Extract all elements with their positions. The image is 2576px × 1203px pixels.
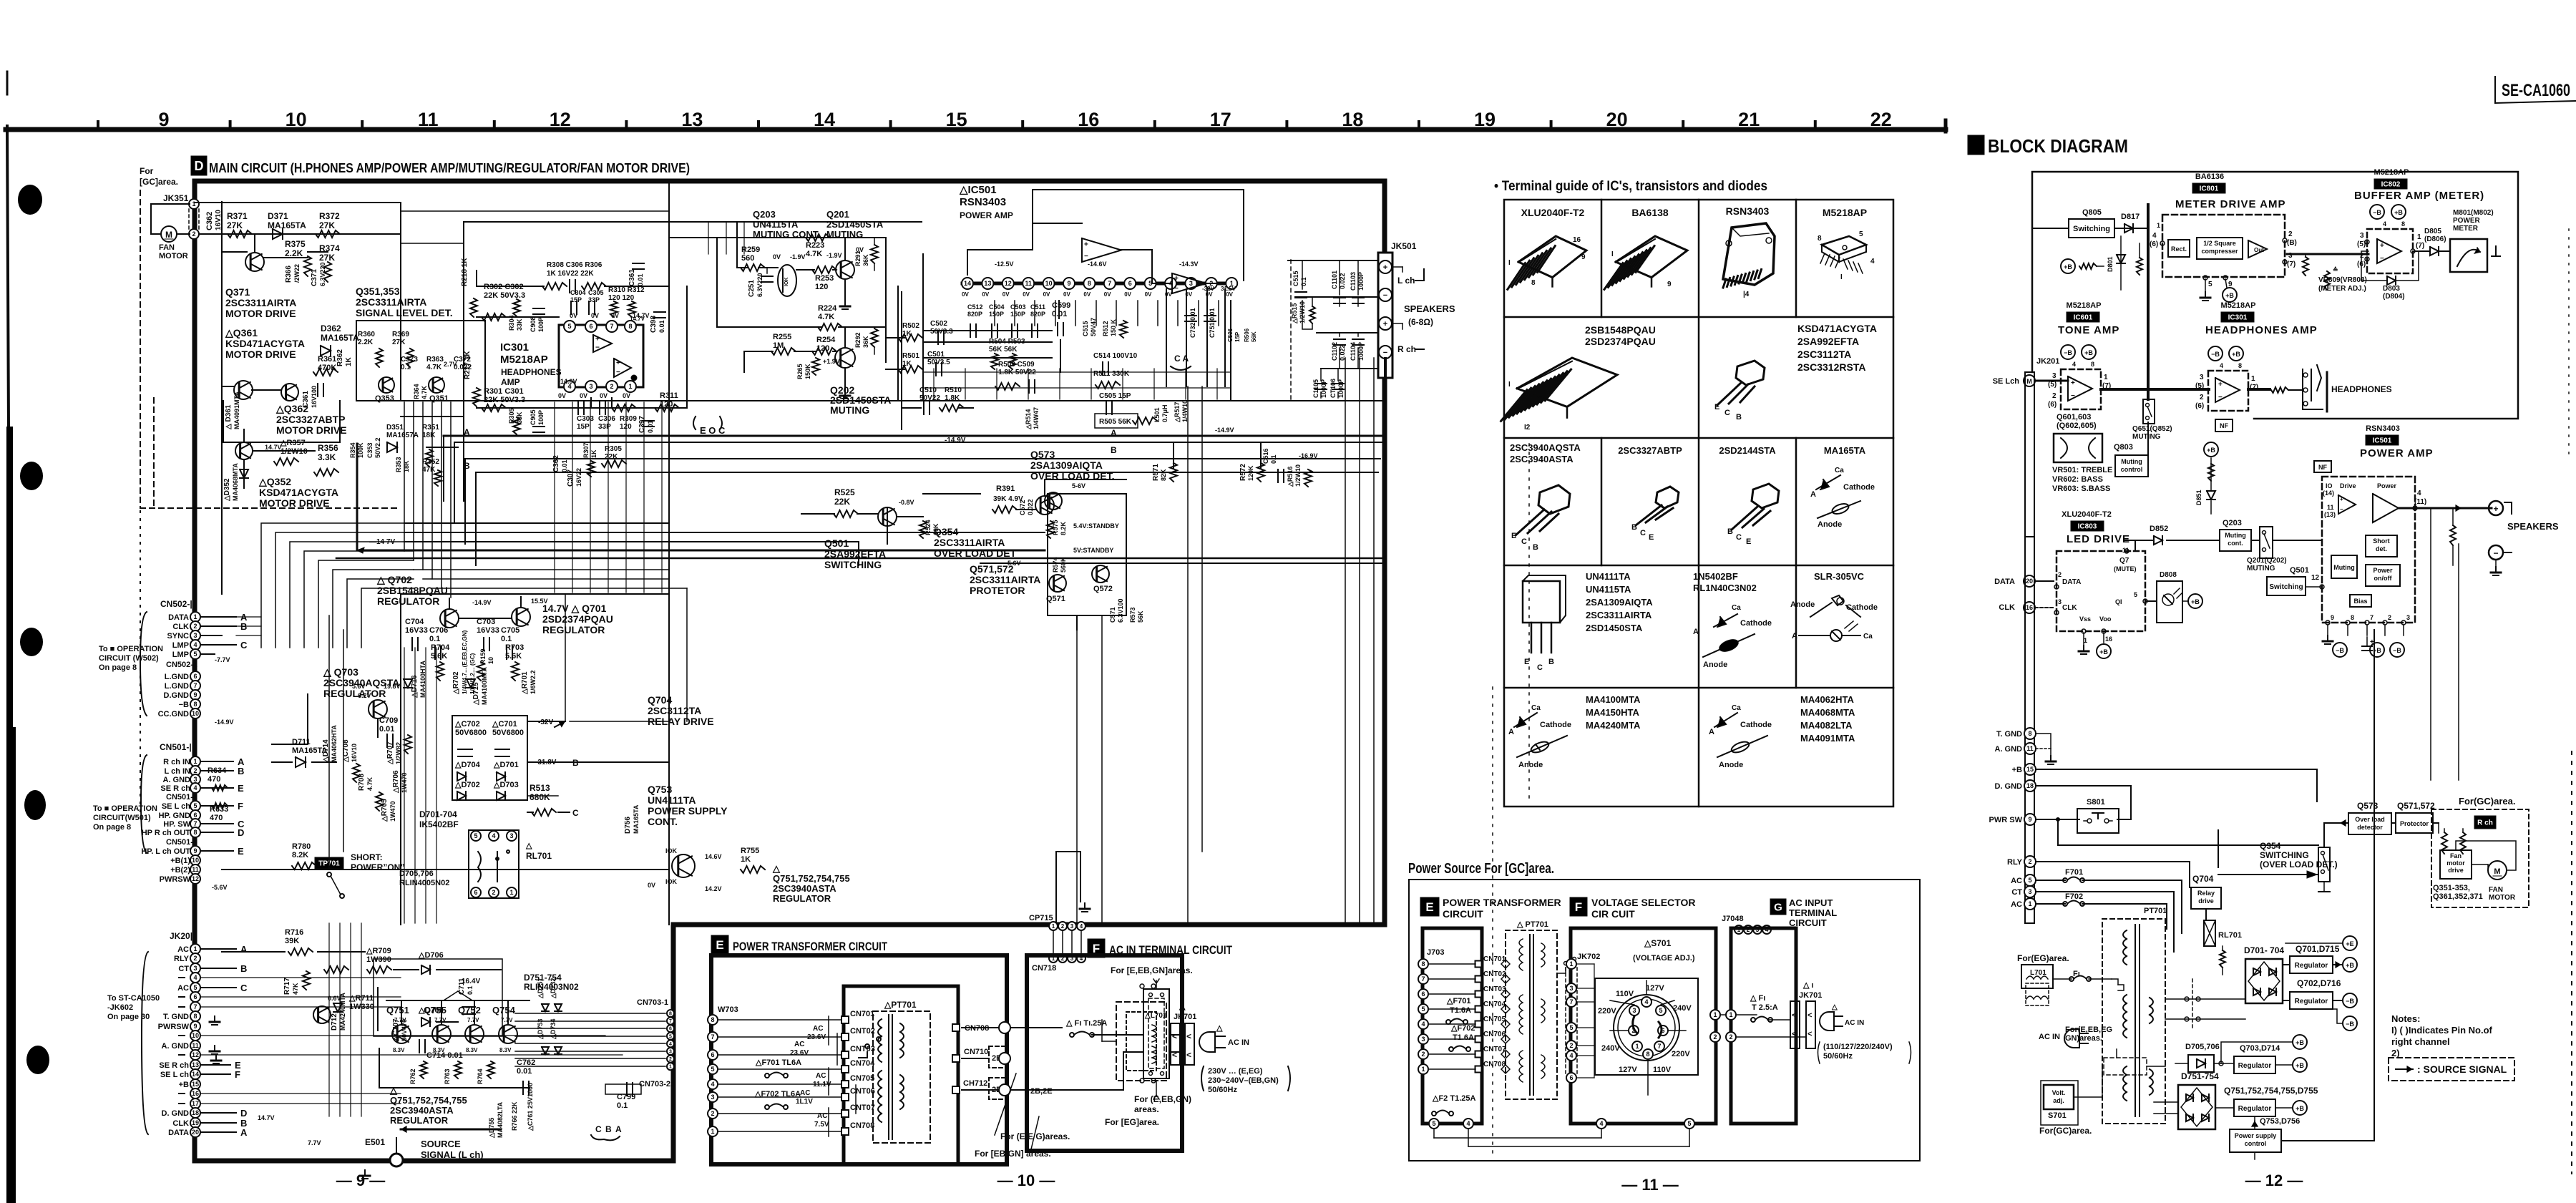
svg-text:Q755: Q755	[424, 1005, 447, 1016]
svg-text:SIGNAL LEVEL DET.: SIGNAL LEVEL DET.	[356, 307, 453, 318]
svg-text:56K: 56K	[1137, 610, 1144, 623]
svg-text:IO: IO	[2326, 482, 2333, 490]
svg-text:CP715: CP715	[1029, 914, 1053, 922]
wire rails left of table	[1384, 401, 1385, 925]
signal level det cluster	[356, 321, 485, 401]
svg-text:I: I	[1840, 273, 1843, 281]
svg-text:+B(2): +B(2)	[170, 866, 190, 875]
svg-text:-7.7V: -7.7V	[215, 656, 230, 663]
svg-text:REGULATOR: REGULATOR	[773, 893, 831, 904]
svg-text:DATA: DATA	[168, 613, 189, 622]
svg-text:3: 3	[193, 632, 197, 639]
svg-text:16: 16	[1573, 236, 1581, 244]
svg-text:8: 8	[1531, 279, 1536, 287]
wire rail2	[717, 326, 821, 328]
svg-text:CIRCUIT: CIRCUIT	[1443, 908, 1483, 920]
svg-text:0.01: 0.01	[379, 725, 394, 734]
svg-text:UN4115TA: UN4115TA	[1586, 584, 1631, 595]
block diagram title	[1968, 135, 1984, 155]
svg-text:OVER LOAD DET: OVER LOAD DET	[934, 547, 1017, 559]
nested wire loops to connectors	[404, 522, 669, 524]
svg-text:230~240V–(EB,GN): 230~240V–(EB,GN)	[1208, 1076, 1279, 1085]
svg-text:7.7V: 7.7V	[308, 1139, 321, 1146]
svg-text:UN4115TA: UN4115TA	[753, 219, 799, 230]
svg-text:△R516: △R516	[1287, 467, 1294, 487]
block diagram outer box	[2032, 172, 2518, 419]
svg-text:I: I	[1508, 381, 1511, 389]
svg-text:15P: 15P	[1234, 331, 1241, 342]
opamp IC501b	[1172, 273, 1206, 293]
svg-text:Q501: Q501	[824, 537, 849, 549]
svg-text:(7): (7)	[2416, 242, 2424, 250]
svg-text:On page 30: On page 30	[107, 1013, 150, 1021]
svg-text:10: 10	[1045, 280, 1053, 287]
svg-text:To ■ OPERATION: To ■ OPERATION	[93, 804, 157, 813]
svg-text:7: 7	[193, 682, 197, 689]
wire	[839, 326, 886, 328]
svg-text:2: 2	[193, 767, 197, 774]
svg-text:T. GND: T. GND	[163, 1013, 189, 1021]
wire mesh Q2xx	[716, 238, 718, 327]
svg-text:0V: 0V	[1063, 291, 1070, 298]
svg-text:3: 3	[2058, 598, 2062, 605]
svg-text:C503: C503	[1010, 303, 1026, 311]
svg-text:Cathode: Cathode	[1846, 603, 1878, 612]
+B circle r1	[2343, 958, 2357, 972]
svg-text:CNT07: CNT07	[850, 1104, 875, 1112]
svg-text:6.3V220: 6.3V220	[319, 262, 326, 286]
svg-text:C516: C516	[1262, 448, 1269, 464]
svg-text:R763: R763	[444, 1068, 451, 1084]
svg-text:2: 2	[1061, 923, 1065, 930]
svg-text:For [EG]area.: For [EG]area.	[1105, 1117, 1159, 1127]
svg-text:+1.9V: +1.9V	[823, 358, 840, 365]
svg-text:M: M	[165, 230, 172, 240]
svg-text:(6-8Ω): (6-8Ω)	[1408, 317, 1433, 327]
svg-text:CH712: CH712	[963, 1079, 987, 1088]
svg-text:19.8V: 19.8V	[384, 683, 401, 690]
regulator box 2	[2290, 992, 2333, 1009]
svg-text:0.1: 0.1	[501, 635, 512, 643]
svg-text:B: B	[1631, 523, 1637, 532]
svg-text:JK701: JK701	[1799, 991, 1822, 1000]
wire relay	[2189, 923, 2190, 937]
switch q354	[2318, 847, 2330, 882]
table row lines	[1504, 316, 1893, 318]
svg-text:det.: det.	[2376, 545, 2387, 552]
svg-text:100P: 100P	[537, 410, 545, 425]
svg-text:R364: R364	[413, 384, 420, 399]
svg-text:3: 3	[1189, 280, 1193, 287]
svg-text:SE L ch: SE L ch	[160, 1071, 189, 1079]
svg-text:2: 2	[193, 955, 197, 962]
svg-text:△: △	[772, 863, 781, 874]
svg-text:CT: CT	[2011, 888, 2022, 897]
svg-text:14.7V △ Q701: 14.7V △ Q701	[542, 603, 607, 614]
long verticals block	[2430, 508, 2431, 780]
svg-text:MOTOR DRIVE: MOTOR DRIVE	[225, 308, 296, 319]
svg-text:0V: 0V	[982, 291, 989, 298]
svg-text:C709: C709	[379, 716, 398, 725]
svg-text:8: 8	[1088, 280, 1091, 287]
svg-text:220V: 220V	[1598, 1007, 1616, 1016]
svg-text:-0.8V: -0.8V	[899, 499, 914, 506]
svg-text:△D701: △D701	[493, 761, 519, 769]
svg-text:△R706: △R706	[392, 770, 400, 794]
svg-text:1/6W2.2… (GC): 1/6W2.2… (GC)	[469, 653, 476, 694]
short det box	[2366, 535, 2397, 557]
svg-text:PT701: PT701	[2144, 907, 2167, 915]
wire	[527, 721, 565, 722]
svg-text:10: 10	[286, 109, 307, 130]
svg-text:<: <	[1172, 1050, 1177, 1060]
svg-text:+: +	[1084, 241, 1088, 249]
svg-text:△R701: △R701	[521, 671, 529, 695]
svg-text:+B: +B	[2296, 1105, 2304, 1112]
svg-text:2SC3112TA: 2SC3112TA	[648, 705, 701, 716]
svg-text:XLU2040F-T2: XLU2040F-T2	[2062, 510, 2112, 519]
horiz segs upper mid	[401, 210, 669, 212]
svg-text:MOTOR DRIVE: MOTOR DRIVE	[259, 497, 330, 509]
transistor Q371	[245, 253, 264, 271]
svg-text:SE R ch: SE R ch	[160, 784, 190, 793]
bias box	[2350, 595, 2371, 607]
corner wires CN side	[261, 523, 414, 648]
svg-text:(6): (6)	[2195, 402, 2204, 410]
svg-text:2SD2144STA: 2SD2144STA	[1719, 445, 1776, 456]
svg-text:−: −	[2380, 255, 2384, 263]
wire bridge2	[2215, 1107, 2234, 1109]
wire	[243, 429, 245, 442]
svg-text:R573: R573	[1129, 607, 1136, 623]
svg-text:5: 5	[1687, 1120, 1691, 1127]
svg-text:9: 9	[1581, 253, 1586, 261]
L701 structure	[1143, 989, 1169, 1078]
transistor Q354t	[1035, 496, 1054, 515]
svg-text:C306: C306	[598, 415, 615, 423]
svg-text:IOK: IOK	[665, 847, 678, 854]
switching box q501	[2267, 577, 2306, 595]
svg-text:≙: ≙	[2333, 266, 2338, 273]
wire f1	[2053, 978, 2072, 980]
long bus wires 2	[414, 569, 669, 570]
svg-text:3: 3	[193, 776, 197, 783]
opamp IC301b	[614, 359, 631, 377]
muting transistor Q203	[778, 265, 796, 296]
protector box block	[2396, 813, 2433, 833]
F box bold	[1027, 955, 1182, 1151]
svg-text:DATA: DATA	[168, 1129, 189, 1137]
svg-text:For [E,EB,GN]areas.: For [E,EB,GN]areas.	[1111, 965, 1193, 975]
svg-text:R360: R360	[358, 331, 375, 339]
opamp IC501a	[1082, 238, 1121, 262]
svg-text:AC: AC	[177, 945, 189, 954]
svg-text:D817: D817	[2121, 213, 2140, 221]
svg-text:0.1: 0.1	[1300, 277, 1307, 286]
svg-text:C504: C504	[989, 303, 1005, 311]
svg-text:−B: −B	[2346, 1021, 2354, 1028]
svg-text:R766 22K: R766 22K	[511, 1101, 518, 1131]
svg-text:IOK: IOK	[784, 278, 789, 286]
svg-text:5.6K: 5.6K	[431, 652, 447, 661]
svg-text:R762: R762	[409, 1068, 416, 1084]
svg-text:D712: D712	[331, 1013, 338, 1031]
svg-text:-1.9V: -1.9V	[790, 253, 806, 260]
svg-text:C: C	[1521, 537, 1527, 546]
table column lines row3	[1601, 438, 1603, 565]
svg-text:— 10 —: — 10 —	[997, 1172, 1055, 1189]
svg-text:(D804): (D804)	[2383, 293, 2405, 301]
pa bottom pins	[2326, 620, 2330, 625]
vertical bundle to bottom	[404, 648, 405, 923]
svg-text:SLR-305VC: SLR-305VC	[1814, 571, 1865, 582]
svg-text:E: E	[1524, 658, 1529, 666]
svg-text:R309: R309	[620, 415, 637, 423]
E box bold	[711, 955, 1007, 1164]
svg-text:Q354: Q354	[2260, 841, 2281, 851]
svg-text:Q805: Q805	[2082, 208, 2102, 217]
svg-text:IK5402BF: IK5402BF	[419, 819, 459, 829]
svg-text:F: F	[238, 801, 243, 812]
svg-text:E: E	[1511, 532, 1516, 540]
svg-text:14.7V: 14.7V	[630, 316, 645, 322]
svg-text:C511: C511	[1030, 303, 1045, 311]
svg-text:Q701,D715: Q701,D715	[2296, 944, 2340, 954]
svg-text:BA6136: BA6136	[2195, 172, 2224, 181]
svg-text:R351: R351	[422, 424, 439, 432]
svg-text:1: 1	[193, 758, 197, 765]
svg-text:1: 1	[711, 1128, 714, 1135]
svg-text:R255: R255	[773, 333, 791, 341]
svg-text:560K: 560K	[1060, 557, 1067, 573]
svg-text:C704: C704	[405, 618, 424, 626]
svg-text:Q571,572: Q571,572	[2397, 801, 2435, 811]
svg-text:2SA1309AIQTA: 2SA1309AIQTA	[1586, 597, 1653, 608]
svg-text:0V: 0V	[962, 291, 969, 298]
transistor Q712	[313, 1006, 331, 1023]
svg-text:C905: C905	[530, 409, 537, 425]
wire d705	[2175, 1063, 2188, 1064]
svg-text:+E: +E	[2346, 940, 2353, 948]
svg-text:8: 8	[669, 1012, 672, 1017]
svg-text:7: 7	[711, 1033, 714, 1041]
svg-text:F: F	[1575, 900, 1582, 914]
svg-text:М: М	[2026, 378, 2032, 385]
svg-text:−B: −B	[2373, 209, 2381, 216]
ruler ticks	[97, 122, 99, 130]
2E dashed boxes	[989, 1046, 1008, 1068]
svg-text:△R514: △R514	[1025, 409, 1032, 430]
svg-text:8: 8	[2238, 362, 2242, 369]
section F2 header	[1570, 897, 1587, 916]
left margin line	[6, 72, 9, 94]
svg-text:△R707: △R707	[386, 741, 394, 765]
svg-text:1: 1	[1569, 960, 1573, 968]
wire inner box signal	[464, 222, 922, 501]
+E circle	[2343, 936, 2357, 950]
svg-text:23.6V: 23.6V	[807, 1033, 826, 1041]
pins FG	[1710, 1010, 1720, 1020]
transistor Q750	[392, 1025, 411, 1043]
wire AC row2	[1010, 1089, 1123, 1091]
wires block vertical buses	[2316, 787, 2318, 802]
svg-text:1: 1	[628, 383, 632, 390]
svg-text:0.1: 0.1	[617, 1101, 628, 1110]
svg-text:110V: 110V	[1653, 1066, 1672, 1074]
svg-text:-32V: -32V	[1202, 286, 1215, 292]
svg-text:L.GND: L.GND	[165, 682, 189, 691]
svg-text:C362: C362	[205, 212, 214, 230]
transistor Q752	[465, 1025, 484, 1043]
svg-text:C: C	[595, 1124, 602, 1134]
wire top rail muting	[669, 237, 886, 238]
svg-text:12: 12	[1005, 280, 1012, 287]
svg-text:50V2.2: 50V2.2	[374, 437, 381, 458]
opamp tone	[2068, 376, 2092, 401]
svg-text:−: −	[1383, 291, 1387, 300]
transistor Q572	[1092, 565, 1109, 583]
wire AC row1	[1010, 1028, 1072, 1035]
svg-text:12: 12	[2311, 574, 2320, 582]
svg-text:M5218AP: M5218AP	[2374, 168, 2409, 177]
diode D803	[2387, 276, 2396, 285]
wire pt to bridge	[2165, 998, 2245, 1000]
svg-text:5: 5	[193, 802, 197, 809]
svg-text:10: 10	[192, 1032, 199, 1039]
wire vertical 648	[463, 401, 464, 501]
svg-text:RLY: RLY	[2007, 858, 2023, 867]
svg-text:(14): (14)	[2323, 490, 2334, 497]
svg-text:6: 6	[193, 673, 197, 680]
registration dot 4	[24, 790, 46, 820]
svg-text:5: 5	[711, 1066, 714, 1073]
svg-text:CN502-2: CN502-2	[166, 661, 197, 669]
svg-text:0.022: 0.022	[1027, 499, 1034, 515]
svg-text:MA4091MTA: MA4091MTA	[233, 391, 240, 429]
box around motor drive	[223, 401, 340, 442]
svg-text:B: B	[1736, 413, 1742, 422]
svg-text:Regulator: Regulator	[2238, 1062, 2272, 1070]
transistor Q703	[369, 700, 387, 719]
svg-text:M5218AP: M5218AP	[2221, 301, 2256, 310]
svg-text:2.7V: 2.7V	[444, 361, 457, 368]
svg-text:4.7K: 4.7K	[806, 250, 822, 258]
svg-text:-1.9V: -1.9V	[826, 252, 842, 259]
svg-text:△C701: △C701	[492, 720, 517, 729]
svg-text:240V: 240V	[1673, 1004, 1692, 1013]
svg-text:AC: AC	[794, 1041, 804, 1048]
svg-text:D801: D801	[2107, 256, 2114, 272]
svg-text:2: 2	[1569, 1042, 1573, 1049]
svg-text:16V22: 16V22	[575, 468, 582, 487]
svg-text:+: +	[595, 335, 600, 343]
svg-text:C515: C515	[1292, 271, 1299, 286]
svg-text:4: 4	[193, 974, 197, 981]
svg-text:1: 1	[2028, 900, 2031, 907]
svg-text:2SC3311AIRTA: 2SC3311AIRTA	[970, 574, 1040, 585]
svg-text:cont.: cont.	[2228, 540, 2243, 547]
svg-text:BLOCK DIAGRAM: BLOCK DIAGRAM	[1988, 135, 2128, 157]
svg-text:230V … (E,EG): 230V … (E,EG)	[1208, 1067, 1263, 1076]
E inner bold box	[844, 986, 958, 1164]
VR809 labels	[2303, 257, 2308, 276]
svg-text:5: 5	[1421, 1005, 1425, 1013]
svg-text:2SC3312RSTA: 2SC3312RSTA	[1797, 361, 1865, 373]
svg-text:LED DRIVE: LED DRIVE	[2067, 533, 2130, 545]
svg-text:0.1: 0.1	[429, 635, 440, 643]
svg-text:2: 2	[669, 1057, 672, 1062]
svg-text:MOTOR DRIVE: MOTOR DRIVE	[225, 349, 296, 360]
svg-text:5-6V: 5-6V	[1072, 482, 1085, 490]
svg-text:2SD1450STA: 2SD1450STA	[826, 219, 884, 230]
svg-text:0V: 0V	[600, 392, 608, 399]
wire jk501 bottom	[1384, 359, 1387, 401]
svg-text:50V6800: 50V6800	[492, 729, 524, 737]
IC501 input box	[902, 292, 1385, 411]
svg-text:E: E	[238, 846, 244, 857]
svg-text:0.1: 0.1	[467, 985, 474, 995]
svg-text:8: 8	[1818, 235, 1822, 243]
svg-text:C571: C571	[1109, 607, 1116, 623]
svg-text:12: 12	[192, 875, 199, 882]
svg-text:D. GND: D. GND	[1995, 782, 2023, 791]
wire bundle to CN703	[515, 1013, 665, 1014]
svg-text:-14.9V: -14.9V	[1215, 427, 1234, 434]
relay drive box	[2191, 887, 2221, 909]
svg-text:+: +	[2340, 496, 2343, 502]
svg-text:POWER TRANSFORMER: POWER TRANSFORMER	[1443, 897, 1561, 908]
svg-text:CIRCUIT(W501): CIRCUIT(W501)	[93, 814, 151, 822]
svg-text:R571: R571	[1152, 464, 1160, 481]
svg-text:SIGNAL (L ch): SIGNAL (L ch)	[421, 1149, 484, 1160]
svg-text:1/6W2.2: 1/6W2.2	[530, 670, 537, 694]
svg-text:C505 15P: C505 15P	[1099, 392, 1131, 400]
svg-text:R265: R265	[796, 364, 804, 379]
svg-text:For: For	[140, 166, 154, 176]
transistor Q573	[1045, 492, 1062, 510]
svg-text:150P: 150P	[989, 311, 1004, 318]
svg-text:C1103: C1103	[1350, 272, 1357, 291]
svg-text:6: 6	[1128, 280, 1132, 287]
svg-text:△: △	[525, 842, 532, 850]
svg-text:M5218AP: M5218AP	[500, 354, 548, 366]
svg-text:T1.6A: T1.6A	[1450, 1006, 1471, 1015]
svg-text:5.6K: 5.6K	[505, 652, 522, 661]
section D header	[191, 156, 207, 175]
svg-text:22K 50V3.3: 22K 50V3.3	[484, 291, 525, 300]
+B circle left	[2061, 259, 2075, 273]
svg-text:33P: 33P	[598, 423, 611, 431]
svg-text:AC IN: AC IN	[1228, 1038, 1249, 1047]
svg-text:drive: drive	[2448, 867, 2464, 874]
svg-text:1: 1	[1421, 1066, 1425, 1073]
svg-text:Q571,572: Q571,572	[970, 563, 1014, 575]
section G header	[1770, 899, 1786, 915]
svg-text:7.7V: 7.7V	[501, 1017, 513, 1023]
buffer dashed box	[2367, 229, 2413, 273]
svg-text:Power: Power	[2377, 482, 2397, 490]
svg-text:18: 18	[192, 1109, 199, 1116]
opamp IC301a	[593, 335, 612, 352]
volt adj box	[2044, 1085, 2074, 1109]
svg-text:8: 8	[711, 1016, 714, 1023]
svg-text:-5.6V: -5.6V	[212, 884, 228, 891]
svg-text:Q753,D756: Q753,D756	[2260, 1117, 2300, 1126]
svg-text:MA4068MTA: MA4068MTA	[1800, 707, 1855, 718]
svg-text:16V10: 16V10	[351, 744, 358, 762]
svg-text:Q201(Q202): Q201(Q202)	[2247, 557, 2287, 565]
svg-text:2: 2	[492, 889, 495, 896]
